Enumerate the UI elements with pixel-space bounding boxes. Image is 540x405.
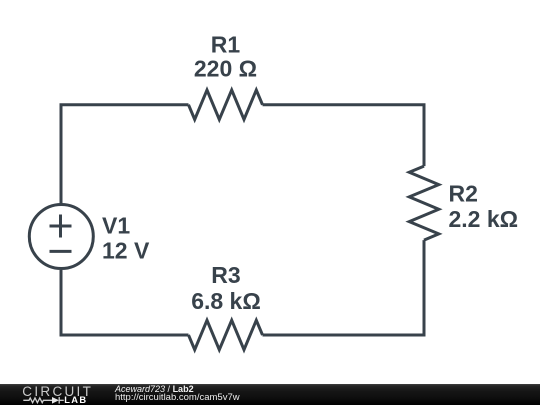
- V1 minus sign: [50, 250, 72, 253]
- footer bar: [0, 384, 540, 405]
- svg-text:6.8 kΩ: 6.8 kΩ: [191, 288, 261, 314]
- svg-text:LAB: LAB: [64, 395, 87, 405]
- CircuitLab logo: [0, 384, 100, 405]
- svg-text:2.2 kΩ: 2.2 kΩ: [449, 206, 519, 232]
- resistor R2: [409, 166, 439, 240]
- svg-text:R1: R1: [211, 32, 241, 58]
- svg-text:220 Ω: 220 Ω: [194, 56, 257, 82]
- wire top-right: top rail from R1 + right rail upper: [263, 105, 425, 166]
- voltage source V1 circle: [29, 205, 93, 269]
- resistor R1: [189, 90, 263, 120]
- V1 plus sign: [50, 215, 72, 238]
- svg-text:V1: V1: [102, 213, 130, 239]
- wire bottom-left: bottom rail from R3 + left rail lower: [61, 270, 189, 335]
- resistor R3: [189, 320, 263, 350]
- footer title text: [115, 385, 194, 394]
- svg-text:R2: R2: [449, 181, 478, 207]
- wire bottom-right: right rail lower + bottom rail to R3: [263, 240, 425, 335]
- wire top-left: left rail upper + top rail to R1: [61, 105, 189, 204]
- footer url text: [115, 393, 240, 403]
- svg-text:12 V: 12 V: [102, 237, 150, 263]
- svg-text:R3: R3: [211, 262, 240, 288]
- logo resistor + diode: [23, 397, 64, 404]
